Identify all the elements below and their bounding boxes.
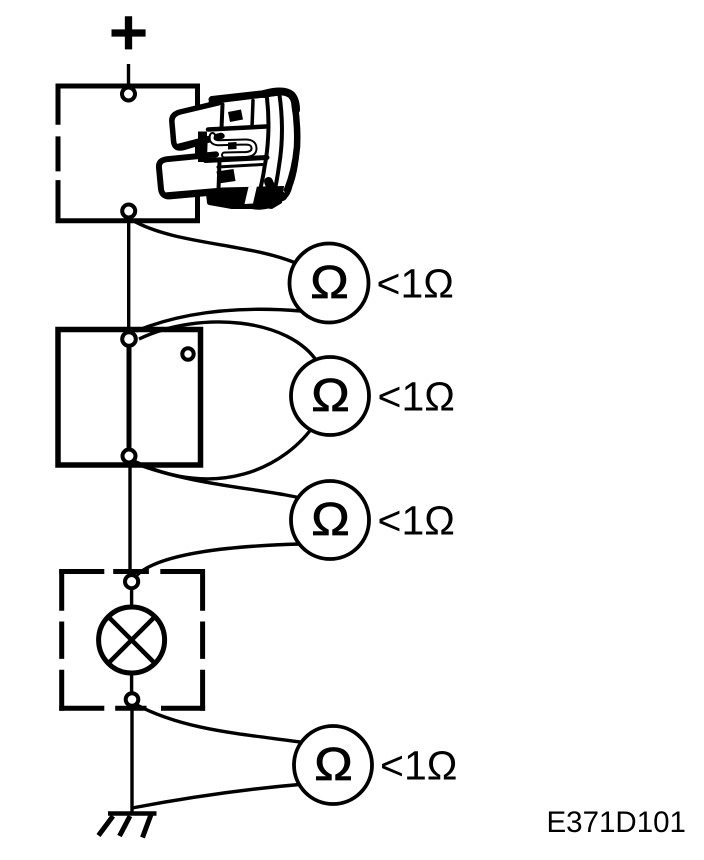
- svg-text:Ω: Ω: [311, 493, 350, 545]
- svg-text:Ω: Ω: [310, 256, 349, 308]
- svg-text:<1Ω: <1Ω: [377, 261, 454, 307]
- svg-text:E371D101: E371D101: [547, 806, 686, 839]
- svg-text:<1Ω: <1Ω: [378, 498, 455, 544]
- svg-text:Ω: Ω: [314, 738, 353, 790]
- svg-text:<1Ω: <1Ω: [380, 743, 457, 789]
- svg-text:<1Ω: <1Ω: [378, 374, 455, 420]
- svg-text:Ω: Ω: [311, 369, 350, 421]
